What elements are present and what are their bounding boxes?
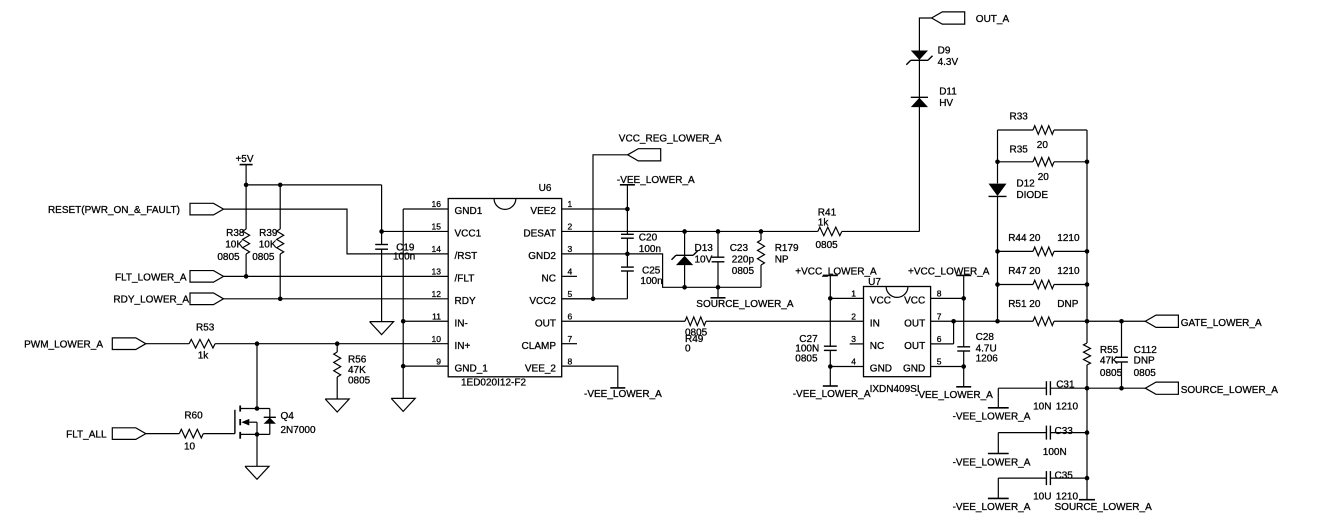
resistor R51 [1008, 299, 1079, 326]
diode D11 [911, 86, 957, 108]
diode D12 [989, 178, 1049, 201]
svg-text:100N: 100N [1043, 447, 1067, 458]
power +VCC_LOWER_A [795, 267, 877, 386]
svg-text:7: 7 [937, 311, 942, 321]
wire C35 row [998, 477, 1087, 479]
svg-text:10K: 10K [259, 240, 277, 251]
svg-text:10N: 10N [1033, 401, 1051, 412]
svg-text:1k: 1k [198, 351, 210, 362]
junction [716, 229, 721, 234]
svg-text:C28: C28 [976, 332, 995, 343]
svg-text:FLT_ALL: FLT_ALL [66, 430, 107, 441]
junction [995, 319, 1000, 324]
wire C33 to -VEE [997, 433, 999, 454]
terminal OUT_A [932, 12, 1010, 25]
wire DESAT [562, 230, 920, 232]
svg-text:-VEE_LOWER_A: -VEE_LOWER_A [793, 389, 871, 400]
svg-text:NC: NC [542, 273, 556, 284]
svg-text:0805: 0805 [217, 252, 240, 263]
svg-text:IN-: IN- [455, 318, 468, 329]
svg-text:11: 11 [432, 311, 441, 321]
junction [682, 285, 687, 290]
svg-text:RESET(PWR_ON_&_FAULT): RESET(PWR_ON_&_FAULT) [48, 205, 180, 216]
svg-text:5: 5 [937, 357, 942, 367]
junction [716, 285, 721, 290]
wire ladder left rail [997, 130, 999, 321]
svg-text:0805: 0805 [1100, 368, 1123, 379]
wire RESET to /RST [224, 209, 449, 254]
svg-text:20: 20 [1038, 172, 1050, 183]
svg-text:0: 0 [685, 344, 691, 355]
terminal VCC_REG_LOWER_A [619, 134, 722, 161]
power -VEE_LOWER_A [915, 387, 993, 401]
svg-text:OUT: OUT [904, 341, 925, 352]
svg-text:U6: U6 [539, 183, 552, 194]
terminal FLT_ALL [66, 428, 146, 441]
svg-text:13: 13 [432, 267, 442, 277]
svg-text:VEE2: VEE2 [530, 206, 556, 217]
power -VEE_LOWER_A [793, 386, 871, 400]
svg-text:R51 20: R51 20 [1008, 299, 1041, 310]
capacitor C31 [1033, 379, 1078, 412]
power -VEE_LOWER_A [617, 175, 695, 186]
svg-text:3: 3 [568, 244, 573, 254]
svg-text:10U: 10U [1033, 492, 1051, 503]
ground [370, 322, 394, 335]
svg-text:1210: 1210 [1056, 401, 1079, 412]
svg-text:R47 20: R47 20 [1008, 266, 1041, 277]
svg-text:CLAMP: CLAMP [522, 341, 557, 352]
wire C31 to -VEE [997, 388, 999, 408]
junction [961, 296, 966, 301]
svg-text:100n: 100n [640, 276, 662, 287]
junction [828, 296, 833, 301]
svg-text:DESAT: DESAT [523, 229, 556, 240]
junction [1085, 160, 1090, 165]
svg-text:5: 5 [568, 289, 573, 299]
svg-text:D13: D13 [695, 243, 714, 254]
svg-text:R38: R38 [226, 228, 245, 239]
svg-text:C23: C23 [730, 243, 749, 254]
svg-text:OUT: OUT [904, 318, 925, 329]
svg-text:PWM_LOWER_A: PWM_LOWER_A [24, 340, 103, 351]
svg-text:C112: C112 [1134, 345, 1158, 356]
svg-text:0805: 0805 [252, 252, 275, 263]
svg-text:2N7000: 2N7000 [281, 425, 316, 436]
wire U7 pin5 [931, 366, 964, 368]
svg-text:-VEE_LOWER_A: -VEE_LOWER_A [584, 389, 662, 400]
terminal RDY_LOWER_A [113, 293, 223, 306]
svg-text:8: 8 [568, 356, 573, 366]
U7 pin labels [851, 289, 941, 375]
svg-text:10: 10 [184, 442, 196, 453]
junction [255, 341, 260, 346]
wire OUT [562, 320, 864, 322]
wire C33 row [998, 432, 1087, 434]
terminal RESET(PWR_ON_&_FAULT) [48, 203, 224, 216]
svg-text:+VCC_LOWER_A: +VCC_LOWER_A [908, 267, 990, 278]
svg-text:1: 1 [851, 289, 856, 299]
junction [625, 252, 630, 257]
svg-text:8: 8 [937, 289, 942, 299]
svg-text:Q4: Q4 [281, 411, 295, 422]
svg-text:4.3V: 4.3V [938, 57, 959, 68]
junction [244, 183, 249, 188]
junction [995, 249, 1000, 254]
svg-text:C25: C25 [642, 265, 661, 276]
junction [828, 364, 833, 369]
svg-text:0805: 0805 [795, 353, 818, 364]
svg-text:OUT: OUT [535, 318, 556, 329]
capacitor C112 [1115, 321, 1157, 388]
svg-text:10: 10 [432, 334, 442, 344]
svg-text:IXDN409SI: IXDN409SI [870, 384, 920, 395]
svg-text:R56: R56 [348, 355, 367, 366]
junction [401, 319, 406, 324]
svg-text:VCC_REG_LOWER_A: VCC_REG_LOWER_A [619, 134, 722, 145]
resistor R38 [217, 185, 249, 276]
junction [379, 229, 384, 234]
wire ladder right rail [1086, 130, 1088, 321]
ground [245, 466, 269, 479]
svg-text:0805: 0805 [732, 266, 755, 277]
wire U7 pin1 [830, 297, 863, 299]
svg-text:100n: 100n [393, 252, 415, 263]
diode D13 [672, 231, 714, 287]
svg-text:SOURCE_LOWER_A: SOURCE_LOWER_A [696, 299, 794, 310]
svg-text:NC: NC [870, 341, 884, 352]
resistor R53 [146, 323, 448, 362]
resistor R179 [758, 231, 800, 287]
U6 pin labels [432, 199, 573, 374]
wire source bus [1086, 388, 1088, 500]
svg-text:1210: 1210 [1057, 266, 1080, 277]
wire gate line [954, 320, 1146, 322]
junction [1119, 319, 1124, 324]
svg-text:R35: R35 [1010, 144, 1029, 155]
capacitor C23 [712, 231, 755, 287]
svg-text:6: 6 [568, 311, 573, 321]
svg-text:IN+: IN+ [455, 341, 471, 352]
svg-text:SOURCE_LOWER_A: SOURCE_LOWER_A [1181, 385, 1279, 396]
wire FLT to /FLT [224, 275, 449, 277]
wire source row [998, 387, 1145, 389]
diode D9 [906, 46, 958, 68]
junction [401, 364, 406, 369]
wire U7 pin8 [931, 297, 964, 299]
svg-text:GND: GND [903, 364, 925, 375]
svg-text:-VEE_LOWER_A: -VEE_LOWER_A [953, 457, 1031, 468]
svg-text:R60: R60 [184, 410, 203, 421]
IC U7 [864, 277, 931, 395]
svg-text:1206: 1206 [976, 353, 999, 364]
wire U7 pin3 stub [850, 343, 864, 345]
svg-text:1210: 1210 [1056, 492, 1079, 503]
junction [951, 319, 956, 324]
svg-text:DIODE: DIODE [1016, 190, 1048, 201]
svg-text:DNP: DNP [1057, 299, 1078, 310]
svg-text:C20: C20 [639, 233, 658, 244]
power -VEE_LOWER_A [953, 408, 1031, 423]
svg-text:2: 2 [851, 311, 856, 321]
svg-text:R179: R179 [775, 243, 799, 254]
svg-text:GATE_LOWER_A: GATE_LOWER_A [1181, 318, 1262, 329]
svg-text:C33: C33 [1055, 426, 1074, 437]
junction [961, 364, 966, 369]
svg-text:9: 9 [436, 356, 441, 366]
svg-text:15: 15 [432, 222, 442, 232]
svg-text:VCC1: VCC1 [455, 229, 482, 240]
resistor R55 [1084, 321, 1123, 388]
junction [759, 229, 764, 234]
junction [682, 229, 687, 234]
svg-text:R33: R33 [1010, 112, 1029, 123]
svg-text:2: 2 [568, 222, 573, 232]
svg-text:-VEE_LOWER_A: -VEE_LOWER_A [953, 412, 1031, 423]
resistor R56 [334, 344, 371, 399]
svg-text:R53: R53 [196, 323, 215, 334]
svg-text:C31: C31 [1056, 379, 1075, 390]
svg-text:VCC: VCC [870, 296, 891, 307]
power -VEE_LOWER_A [953, 454, 1031, 469]
svg-text:DNP: DNP [1134, 355, 1155, 366]
svg-text:+5V: +5V [235, 154, 253, 165]
capacitor C19 [375, 185, 415, 322]
svg-text:0805: 0805 [816, 240, 839, 251]
svg-text:NP: NP [775, 254, 789, 265]
junction [1119, 386, 1124, 391]
junction [625, 207, 630, 212]
svg-text:100n: 100n [639, 244, 661, 255]
junction [1085, 282, 1090, 287]
svg-text:47K: 47K [348, 365, 366, 376]
svg-text:/RST: /RST [455, 251, 478, 262]
wire to OUT_A [919, 18, 931, 231]
wire U7 pin4 [830, 366, 863, 368]
junction [591, 297, 596, 302]
wire Q4 drain [256, 344, 258, 409]
svg-text:0805: 0805 [1134, 368, 1157, 379]
wire VCC2 row [562, 298, 628, 300]
IC U6 [448, 183, 562, 388]
junction [1085, 430, 1090, 435]
wire VCC1 [382, 230, 449, 232]
capacitor C20 [621, 233, 661, 255]
resistor R41 [816, 207, 842, 251]
wire RDY to RDY [224, 298, 449, 300]
svg-text:VCC2: VCC2 [529, 296, 556, 307]
resistor R35 [998, 144, 1088, 183]
power +VCC_LOWER_A [908, 267, 990, 387]
wire VEE_2 [562, 366, 618, 388]
wire GND bus [403, 209, 448, 398]
svg-text:R41: R41 [818, 207, 837, 218]
wire OUT tie [931, 321, 954, 344]
svg-text:20: 20 [1037, 140, 1049, 151]
junction [1085, 476, 1090, 481]
terminal PWM_LOWER_A [24, 338, 146, 351]
junction [1085, 386, 1090, 391]
svg-text:1k: 1k [818, 218, 830, 229]
svg-text:4: 4 [568, 267, 573, 277]
junction [1085, 319, 1090, 324]
svg-text:1: 1 [568, 199, 573, 209]
svg-text:SOURCE_LOWER_A: SOURCE_LOWER_A [1055, 502, 1153, 513]
svg-text:7: 7 [568, 334, 573, 344]
wire CLAMP stub [562, 343, 577, 345]
capacitor C27 [795, 334, 836, 364]
svg-text:4: 4 [851, 357, 856, 367]
junction [255, 432, 260, 437]
terminal FLT_LOWER_A [115, 271, 224, 284]
svg-text:-VEE_LOWER_A: -VEE_LOWER_A [915, 390, 993, 401]
svg-text:GND2: GND2 [528, 251, 556, 262]
svg-text:VCC: VCC [904, 296, 925, 307]
svg-text:220p: 220p [732, 254, 755, 265]
power SOURCE_LOWER_A [1055, 500, 1153, 514]
capacitor C28 [957, 332, 998, 364]
svg-text:0805: 0805 [348, 376, 371, 387]
wire +5V rail [246, 184, 382, 186]
svg-text:10K: 10K [225, 240, 243, 251]
junction [335, 341, 340, 346]
junction [278, 183, 283, 188]
wire GND2 rail [562, 254, 761, 287]
wire Q4 source [256, 434, 258, 466]
transistor Q4 [235, 406, 316, 439]
resistor R33 [998, 112, 1088, 152]
svg-text:D12: D12 [1016, 178, 1035, 189]
svg-text:-VEE_LOWER_A: -VEE_LOWER_A [617, 175, 695, 186]
ground [325, 399, 349, 412]
power -VEE_LOWER_A [953, 498, 1031, 513]
svg-text:16: 16 [432, 199, 442, 209]
junction [995, 282, 1000, 287]
svg-text:-VEE_LOWER_A: -VEE_LOWER_A [953, 502, 1031, 513]
wire C35 to -VEE [997, 478, 999, 498]
svg-text:6: 6 [937, 334, 942, 344]
power -VEE_LOWER_A [584, 388, 662, 400]
svg-text:/FLT: /FLT [455, 273, 475, 284]
capacitor C35 [1033, 471, 1078, 503]
wire VCC_REG to VCC2 [562, 155, 628, 299]
svg-text:GND_1: GND_1 [455, 363, 489, 374]
svg-text:R55: R55 [1100, 345, 1119, 356]
capacitor C33 [1043, 426, 1073, 459]
svg-text:R39: R39 [259, 228, 278, 239]
svg-text:FLT_LOWER_A: FLT_LOWER_A [115, 272, 187, 283]
terminal GATE_LOWER_A [1145, 315, 1262, 329]
svg-text:VEE_2: VEE_2 [525, 363, 557, 374]
svg-text:12: 12 [432, 289, 442, 299]
junction [244, 274, 249, 279]
svg-text:IN: IN [870, 318, 880, 329]
terminal SOURCE_LOWER_A [1145, 382, 1278, 396]
svg-text:3: 3 [851, 334, 856, 344]
svg-text:GND: GND [870, 364, 892, 375]
svg-text:C35: C35 [1055, 471, 1074, 482]
svg-text:RDY_LOWER_A: RDY_LOWER_A [113, 295, 189, 306]
junction [255, 406, 260, 411]
svg-text:D9: D9 [938, 46, 951, 57]
svg-text:10V: 10V [695, 254, 713, 265]
resistor R44 [998, 233, 1088, 256]
wire NC stub [562, 275, 577, 277]
svg-text:D11: D11 [939, 86, 957, 97]
svg-text:HV: HV [939, 98, 953, 109]
resistor R47 [998, 266, 1088, 289]
wire VEE2 stub [562, 185, 628, 235]
power +5V [235, 154, 253, 185]
power SOURCE_LOWER_A [696, 287, 794, 310]
resistor R39 [252, 185, 283, 299]
svg-text:1210: 1210 [1057, 233, 1080, 244]
svg-text:U7: U7 [868, 277, 881, 288]
resistor R60 [146, 410, 235, 452]
svg-text:1ED020I12-F2: 1ED020I12-F2 [461, 377, 526, 388]
resistor R49 [685, 317, 708, 355]
capacitor C25 [621, 254, 663, 299]
svg-text:RDY: RDY [455, 296, 476, 307]
svg-text:R44 20: R44 20 [1008, 233, 1041, 244]
ground [391, 398, 415, 411]
junction [278, 297, 283, 302]
svg-text:GND1: GND1 [455, 206, 483, 217]
svg-text:14: 14 [432, 244, 442, 254]
svg-text:OUT_A: OUT_A [976, 14, 1010, 25]
junction [995, 160, 1000, 165]
junction [1085, 249, 1090, 254]
